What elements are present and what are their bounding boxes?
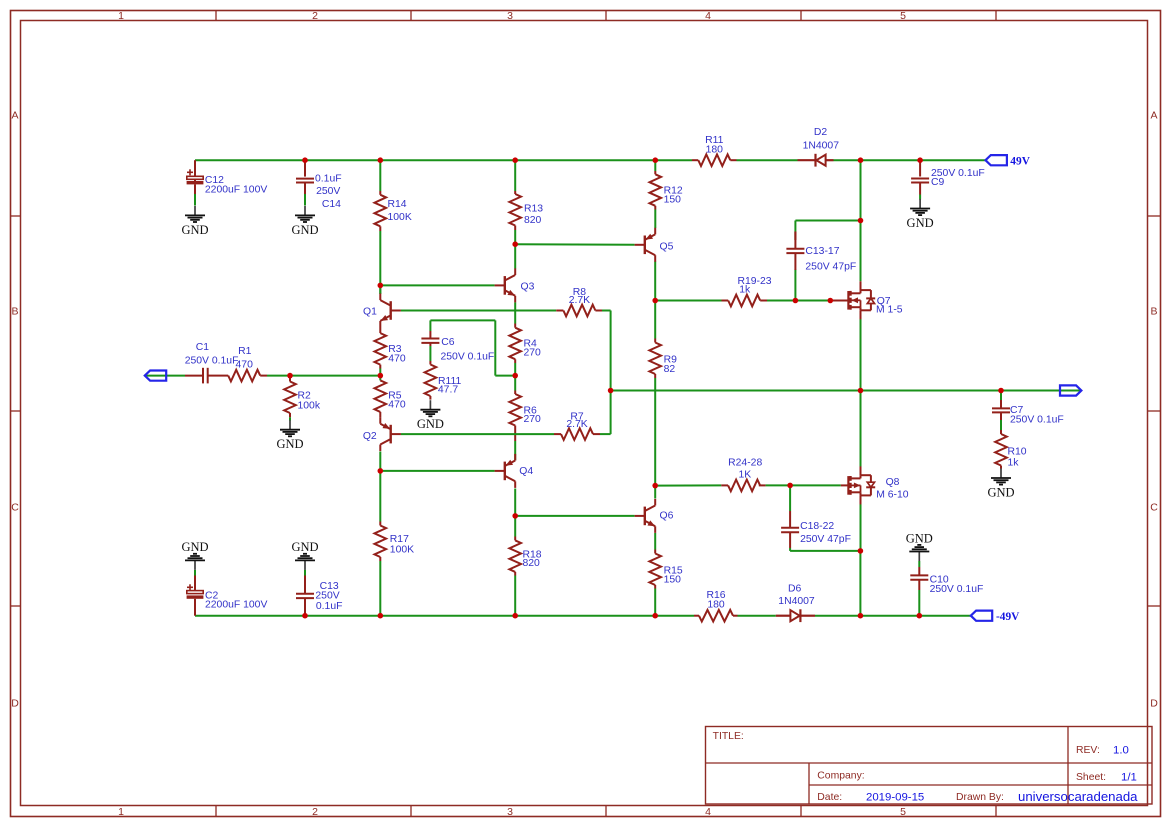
capacitor C9 xyxy=(911,168,985,194)
svg-text:4: 4 xyxy=(705,806,711,818)
wire R14 bottom xyxy=(379,231,381,294)
svg-text:2.7K: 2.7K xyxy=(566,419,587,430)
resistor R1 xyxy=(222,346,268,382)
resistor R24-28 xyxy=(728,458,762,492)
svg-text:R10: R10 xyxy=(1008,447,1027,458)
wire node Q1 collector to Q3 base xyxy=(380,285,494,294)
junction C7/output rail xyxy=(998,388,1004,394)
wire R17 bottom xyxy=(379,561,381,616)
wire Q6 collector up xyxy=(654,486,656,499)
svg-text:GND: GND xyxy=(276,437,303,451)
junction R3-R5/input xyxy=(378,373,384,379)
svg-text:GND: GND xyxy=(987,485,1014,499)
svg-text:1.0: 1.0 xyxy=(1113,745,1129,757)
junction Q7 drain/+49V rail xyxy=(858,157,864,163)
wire C7 top xyxy=(1000,391,1002,401)
wire Q4 collector down xyxy=(514,489,516,516)
wire Q3 collector xyxy=(514,244,516,268)
resistor R4 xyxy=(509,324,541,364)
svg-text:250V 0.1uF: 250V 0.1uF xyxy=(185,356,239,367)
wire R12 to Q5 emitter xyxy=(654,210,656,229)
ground C14 xyxy=(291,206,318,237)
capacitor C10 xyxy=(910,567,983,595)
svg-text:Q4: Q4 xyxy=(519,466,533,477)
svg-text:2.7K: 2.7K xyxy=(569,295,590,306)
svg-text:3: 3 xyxy=(507,806,513,818)
ground R2 xyxy=(276,420,303,451)
transistor Q2 xyxy=(363,417,401,451)
svg-text:B: B xyxy=(11,306,18,318)
svg-text:Q3: Q3 xyxy=(521,282,535,293)
junction R18/-49V rail xyxy=(512,613,518,619)
wire R24-28 pins xyxy=(721,484,765,486)
svg-text:C: C xyxy=(1150,502,1158,514)
wire output to Q8 drain xyxy=(860,391,862,467)
svg-text:5: 5 xyxy=(900,806,906,818)
svg-text:250V 47pF: 250V 47pF xyxy=(805,261,856,272)
junction R15/-49V rail xyxy=(652,613,658,619)
svg-text:Sheet:: Sheet: xyxy=(1076,772,1106,783)
resistor R14 xyxy=(375,191,412,231)
ground C9 xyxy=(907,199,934,230)
wire +49V rail xyxy=(195,159,986,161)
svg-text:1N4007: 1N4007 xyxy=(778,596,815,607)
svg-text:C18-22: C18-22 xyxy=(800,521,834,532)
svg-text:180: 180 xyxy=(707,600,725,611)
svg-text:M 6-10: M 6-10 xyxy=(876,490,909,501)
wire R2 to GND xyxy=(289,417,291,420)
junction R2/input xyxy=(287,373,293,379)
svg-text:1: 1 xyxy=(118,10,124,22)
wire C9 top pin xyxy=(919,160,921,176)
svg-text:Date:: Date: xyxy=(817,792,842,803)
svg-text:Drawn By:: Drawn By: xyxy=(956,792,1004,803)
svg-text:820: 820 xyxy=(523,558,541,569)
svg-text:100K: 100K xyxy=(388,212,412,223)
wire output rail xyxy=(611,390,1081,392)
wire R19-23 to Q7 gate xyxy=(767,300,830,302)
svg-text:49V: 49V xyxy=(1010,156,1030,168)
svg-text:0.1uF: 0.1uF xyxy=(316,601,343,612)
wire R24-28 to Q8 gate xyxy=(766,484,841,486)
svg-text:Q1: Q1 xyxy=(363,306,377,317)
resistor R19-23 xyxy=(728,276,772,306)
wire C6 top loop xyxy=(430,320,515,375)
wire R3 bottom xyxy=(379,369,381,376)
svg-text:3: 3 xyxy=(507,10,513,22)
wire C18-22 bottom loop xyxy=(790,548,860,551)
wire node to R17 xyxy=(379,471,381,522)
svg-text:250V: 250V xyxy=(316,186,340,197)
svg-text:TITLE:: TITLE: xyxy=(713,731,744,742)
svg-text:270: 270 xyxy=(524,414,542,425)
wire C14 to GND xyxy=(304,194,306,206)
wire -49V rail xyxy=(195,615,971,617)
junction R4-R6/C6 net xyxy=(512,373,518,379)
svg-text:1k: 1k xyxy=(1008,458,1020,469)
svg-text:A: A xyxy=(1150,110,1157,122)
svg-text:100k: 100k xyxy=(298,401,321,412)
wire R14 top xyxy=(379,160,381,191)
svg-text:R13: R13 xyxy=(524,204,543,215)
resistor R8 xyxy=(563,287,595,316)
wire R9 bottom to Q6 collector xyxy=(654,378,656,486)
wire Q3 emitter to R4 xyxy=(514,302,516,323)
transistor Q3 xyxy=(495,268,535,302)
wire C12 to GND xyxy=(194,194,196,206)
wire C9 to GND xyxy=(919,195,921,200)
svg-text:C9: C9 xyxy=(931,177,945,188)
ground C2 xyxy=(181,540,208,570)
capacitor C14 xyxy=(296,174,342,210)
svg-text:100K: 100K xyxy=(390,545,414,556)
wire R13 top xyxy=(514,160,516,191)
svg-text:GND: GND xyxy=(291,540,318,554)
wire R13 bottom xyxy=(514,230,516,244)
resistor R9 xyxy=(649,339,677,379)
wire Q2 collector node xyxy=(380,452,494,471)
wire R8 to output node xyxy=(610,311,612,391)
junction Q1 collector node xyxy=(378,283,384,289)
svg-text:Q5: Q5 xyxy=(660,241,674,252)
wire node R13 to Q5 base xyxy=(515,243,634,246)
svg-text:R17: R17 xyxy=(390,534,409,545)
svg-text:M 1-5: M 1-5 xyxy=(876,304,903,315)
junction R12/+49V rail xyxy=(653,157,659,163)
ground R10 xyxy=(987,469,1014,500)
wire Q6 emitter to R15 xyxy=(654,533,656,550)
wire R2 top xyxy=(289,376,291,378)
wire R7 to output node xyxy=(610,391,612,435)
wire C6 to R111 xyxy=(429,346,431,361)
resistor R10 xyxy=(995,430,1027,469)
resistor R15 xyxy=(649,550,682,589)
svg-text:2: 2 xyxy=(312,806,318,818)
svg-text:150: 150 xyxy=(664,194,682,205)
wire C7 to R10 xyxy=(1000,420,1002,430)
wire GND to C13 xyxy=(304,570,306,576)
wire R12 top xyxy=(654,160,656,171)
resistor R7 xyxy=(561,412,593,440)
transistor Q8 xyxy=(848,466,908,504)
transistor Q4 xyxy=(495,454,534,488)
svg-text:470: 470 xyxy=(388,353,406,364)
transistor Q6 xyxy=(635,499,674,533)
svg-text:1k: 1k xyxy=(739,284,751,295)
wire Q8 source down xyxy=(859,504,861,616)
svg-text:D6: D6 xyxy=(788,584,802,595)
resistor R16 xyxy=(694,590,738,621)
junction Q7 gate pin xyxy=(828,298,834,304)
svg-text:Q2: Q2 xyxy=(363,431,377,442)
svg-text:GND: GND xyxy=(181,223,208,237)
diode D2 xyxy=(798,127,840,167)
wire C12 top pin xyxy=(194,160,196,176)
svg-text:B: B xyxy=(1150,306,1157,318)
junction C13-17 gate tap xyxy=(793,298,799,304)
resistor R13 xyxy=(509,191,543,230)
svg-text:820: 820 xyxy=(524,215,542,226)
svg-text:A: A xyxy=(11,110,18,122)
transistor Q1 xyxy=(363,294,401,328)
capacitor C6 xyxy=(421,331,494,362)
transistor Q7 xyxy=(848,281,902,319)
wire Q1 base to R8 xyxy=(401,310,611,312)
capacitor C2 xyxy=(187,576,268,616)
resistor R12 xyxy=(650,171,683,210)
junction Q4 collector/R18 node xyxy=(512,513,518,519)
svg-text:Q6: Q6 xyxy=(660,511,674,522)
wire Q7 drain column xyxy=(860,160,862,281)
wire input net xyxy=(145,375,381,377)
wire R5 pins xyxy=(379,376,381,381)
svg-text:Company:: Company: xyxy=(817,771,864,782)
svg-text:C6: C6 xyxy=(441,337,455,348)
svg-text:R24-28: R24-28 xyxy=(728,458,762,469)
resistor R18 xyxy=(509,537,541,576)
junction Q5 collector/R19-23 xyxy=(652,298,658,304)
junction Q6 collector/R24-28 xyxy=(652,483,658,489)
svg-text:470: 470 xyxy=(388,400,406,411)
resistor R111 xyxy=(425,361,462,400)
wire Q8 gate pin xyxy=(841,484,849,486)
resistor R6 xyxy=(509,391,541,430)
wire GND to C10 xyxy=(918,561,920,567)
svg-text:82: 82 xyxy=(664,364,676,375)
svg-text:150: 150 xyxy=(664,574,682,585)
transistor Q5 xyxy=(635,228,674,262)
svg-text:GND: GND xyxy=(907,216,934,230)
ground R111 xyxy=(417,400,444,431)
svg-text:2: 2 xyxy=(312,10,318,22)
junction Q2 collector node xyxy=(378,468,384,474)
svg-text:180: 180 xyxy=(706,145,724,156)
junction R14/+49V rail xyxy=(378,157,384,163)
resistor R3 xyxy=(375,328,406,369)
junction C18-22 gate tap xyxy=(787,483,793,489)
svg-text:0.1uF: 0.1uF xyxy=(315,174,342,185)
svg-text:GND: GND xyxy=(291,223,318,237)
svg-text:1/1: 1/1 xyxy=(1121,772,1137,784)
capacitor C12 xyxy=(187,169,268,195)
svg-text:GND: GND xyxy=(181,540,208,554)
junction R13/+49V rail xyxy=(512,157,518,163)
svg-text:250V 0.1uF: 250V 0.1uF xyxy=(1010,415,1064,426)
wire R4 bottom xyxy=(514,363,516,376)
wire C13-17 top loop xyxy=(795,221,860,241)
svg-text:1: 1 xyxy=(118,806,124,818)
svg-text:250V 47pF: 250V 47pF xyxy=(800,534,851,545)
svg-text:GND: GND xyxy=(906,531,933,545)
wire Q2 base to R7 xyxy=(401,433,611,435)
wire R19-23 pins xyxy=(722,300,768,302)
svg-text:universocaradenada: universocaradenada xyxy=(1018,789,1138,804)
svg-text:REV:: REV: xyxy=(1076,745,1100,756)
wire Q5 collector down xyxy=(654,262,656,301)
junction C10/-49V rail xyxy=(917,613,923,619)
svg-text:47.7: 47.7 xyxy=(438,385,458,396)
junction Q8 source/-49V rail xyxy=(858,613,864,619)
ground C12 xyxy=(181,206,208,237)
resistor R5 xyxy=(375,380,406,417)
svg-text:C1: C1 xyxy=(196,342,210,353)
junction C14/+49V rail xyxy=(302,157,308,163)
wire node Q4/R18 to Q6 base xyxy=(515,515,634,517)
wire C13-17 bottom xyxy=(794,270,796,301)
svg-text:R1: R1 xyxy=(238,346,252,357)
port output xyxy=(1060,385,1081,395)
svg-text:C13-17: C13-17 xyxy=(805,246,839,257)
svg-text:-49V: -49V xyxy=(996,611,1020,623)
svg-text:C14: C14 xyxy=(322,199,341,210)
svg-text:5: 5 xyxy=(900,10,906,22)
junction C18-22/Q8 source xyxy=(858,548,864,554)
wire GND to C2 xyxy=(194,570,196,576)
junction C13-17 top/Q7 drain xyxy=(858,218,864,224)
ground C10 xyxy=(906,531,933,561)
wire R15 bottom xyxy=(654,589,656,616)
ground C13 xyxy=(291,540,318,570)
svg-text:250V 0.1uF: 250V 0.1uF xyxy=(930,584,984,595)
junction R17/-49V rail xyxy=(378,613,384,619)
wire C18-22 top xyxy=(789,485,791,511)
svg-text:2200uF 100V: 2200uF 100V xyxy=(205,600,267,611)
junction Q7-Q8/output rail xyxy=(858,388,864,394)
diode D6 xyxy=(776,584,815,623)
wire C10 to rail xyxy=(918,590,920,616)
svg-text:GND: GND xyxy=(417,417,444,431)
svg-text:1K: 1K xyxy=(738,469,751,480)
svg-text:D2: D2 xyxy=(814,127,828,138)
junction C13/-49V rail xyxy=(302,613,308,619)
wire Q7 gate pin xyxy=(830,300,848,302)
capacitor C13 xyxy=(296,576,342,616)
junction C9/+49V rail xyxy=(917,157,923,163)
resistor R17 xyxy=(375,522,415,562)
svg-text:C: C xyxy=(11,502,19,514)
svg-text:Q8: Q8 xyxy=(886,477,900,488)
resistor R11 xyxy=(692,135,737,166)
svg-text:D: D xyxy=(11,698,19,710)
wire Q6/R24-28 node xyxy=(655,484,721,486)
wire R6 bottom to Q4 emitter xyxy=(514,430,516,461)
svg-text:2019-09-15: 2019-09-15 xyxy=(866,791,924,803)
svg-text:270: 270 xyxy=(524,348,542,359)
svg-text:D: D xyxy=(1150,698,1158,710)
wire C14 top pin xyxy=(304,160,306,176)
svg-text:2200uF 100V: 2200uF 100V xyxy=(205,184,267,195)
port -49V xyxy=(971,611,1020,623)
port input xyxy=(145,371,166,381)
capacitor C1 xyxy=(185,342,239,383)
wire Q5/R19-23 node xyxy=(655,300,721,302)
svg-text:1N4007: 1N4007 xyxy=(803,141,840,152)
resistor R2 xyxy=(284,378,321,417)
wire gate node to R9 xyxy=(654,301,656,339)
wire R6 top xyxy=(514,376,516,391)
svg-text:R14: R14 xyxy=(388,199,407,210)
port 49V xyxy=(986,155,1031,168)
capacitor C7 xyxy=(992,400,1064,426)
junction R13/Q5 base node xyxy=(512,241,518,247)
wire Q7 source to output xyxy=(860,319,862,391)
junction R7-R8/output node xyxy=(608,388,614,394)
svg-text:250V 0.1uF: 250V 0.1uF xyxy=(441,351,495,362)
svg-text:470: 470 xyxy=(236,360,254,371)
capacitor C13-17 xyxy=(786,232,856,273)
capacitor C18-22 xyxy=(781,511,851,548)
svg-text:4: 4 xyxy=(705,10,711,22)
wire R18 pins xyxy=(514,516,516,616)
